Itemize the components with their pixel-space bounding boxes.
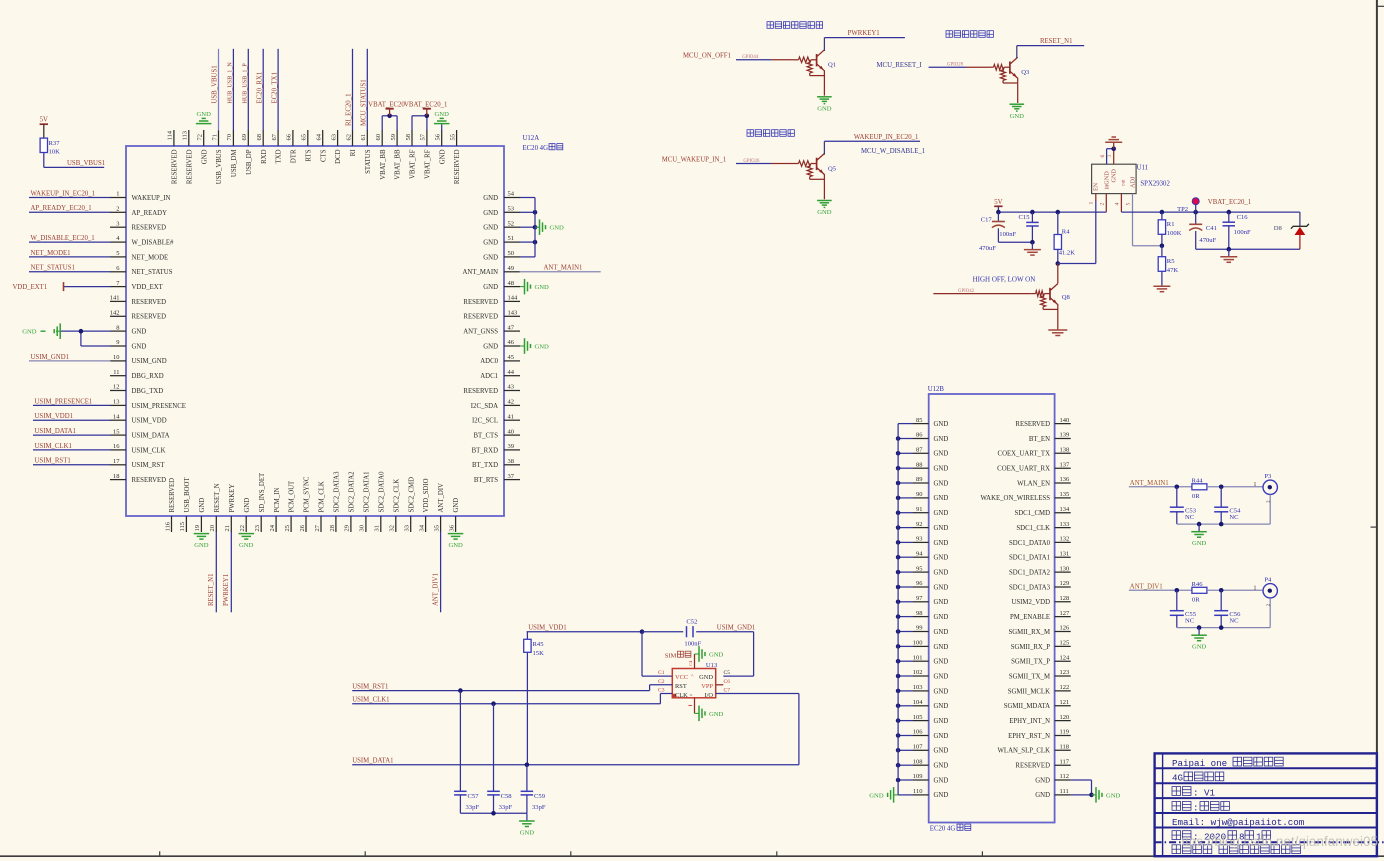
junction rail/C16 [1227,210,1232,215]
resistor R46 [1192,587,1207,593]
junction rail/R1 [1160,210,1165,215]
svg-text:88: 88 [916,461,923,468]
resistor R45 [524,632,531,765]
svg-text:SGMII_TX_M: SGMII_TX_M [1009,673,1050,680]
svg-text:U12B: U12B [928,386,945,393]
title block frame [1155,753,1384,856]
junction rail/C41 [1193,210,1198,215]
U13 pin C3 label [658,688,665,694]
svg-text:Q1: Q1 [828,62,836,69]
U12A top pin 56 GND [434,111,450,164]
svg-text:GND: GND [483,210,498,217]
svg-text:GND: GND [934,525,949,532]
svg-text:RESERVED: RESERVED [463,314,498,321]
svg-text:MCU_W_DISABLE_1: MCU_W_DISABLE_1 [861,148,925,155]
U12B left pin 108 GND [896,758,949,769]
U12A right pin 54 GND [483,191,535,202]
resistor R37 [40,138,47,152]
U12B right pin 117 RESERVED [1015,758,1070,769]
ground at ANT_MAIN1 network [1191,524,1207,547]
junction gnd rail tap [1197,625,1202,630]
U12A bottom pin 25 PCM_OUT [284,480,296,532]
svg-text:GND: GND [483,240,498,247]
svg-text:52: 52 [508,220,515,227]
U12B right pin 112 GND [1035,773,1091,784]
svg-text:GND: GND [439,149,446,164]
svg-text:23: 23 [254,525,261,532]
svg-text:RESERVED: RESERVED [169,478,176,513]
svg-text:WLAN_EN: WLAN_EN [1017,480,1050,487]
svg-text:111: 111 [1060,788,1069,795]
U12A bottom pin 32 SDC2_CLK [389,479,401,532]
C17 labels [979,217,1016,252]
svg-text:2: 2 [116,206,119,213]
svg-text:GND: GND [550,225,565,232]
svg-text:ANT_GNSS: ANT_GNSS [463,329,498,336]
title row 4 作者: 伍俊伟 [1172,802,1229,814]
svg-text:SIM: SIM [665,652,677,659]
ground at C16 [1220,249,1237,262]
svg-text:GND: GND [934,584,949,591]
svg-text:70: 70 [226,134,233,141]
svg-text:DBG_TXD: DBG_TXD [132,388,164,395]
U13 pin name GND [699,674,713,681]
svg-text:GND: GND [709,651,724,658]
svg-text:GND: GND [197,111,212,118]
svg-text:58: 58 [405,134,412,141]
U12B right pin 135 WAKE_ON_WIRELESS [981,491,1071,502]
svg-text:95: 95 [916,565,923,572]
svg-text:20: 20 [209,525,216,532]
svg-text:GND: GND [22,329,37,336]
svg-text:BT_CTS: BT_CTS [473,433,498,440]
svg-text:144: 144 [508,295,519,302]
wire USIM_VDD1 [527,631,642,633]
resistor R4 [1054,212,1061,263]
svg-text:C1: C1 [658,670,665,676]
U12B left pin 85 GND [898,417,948,428]
svg-text:124: 124 [1060,654,1071,661]
svg-text:134: 134 [1060,506,1071,513]
svg-text:GPIO44: GPIO44 [742,55,759,60]
regulator U11 SPX29302 body [1092,164,1137,193]
wire PWRKEY1 [824,37,905,39]
junction USIM_CLK1/C58 [491,701,496,706]
junction C15/C17 gnd [1030,240,1035,245]
U12A right pin 46 GND [483,338,549,354]
svg-text:RI_EC20_1: RI_EC20_1 [346,94,353,126]
svg-text:GND: GND [453,498,460,513]
U13 pin name CLK [675,692,688,699]
svg-text:USB_VBUS1: USB_VBUS1 [212,65,219,103]
svg-text:5V: 5V [40,117,48,124]
svg-text:ANT_MAIN1: ANT_MAIN1 [544,265,583,272]
svg-text:GND: GND [1111,169,1118,183]
U12A left pin 7 VDD_EXT [13,280,164,291]
U12A top pin 70 USB_DM [226,49,238,177]
svg-text:PCM_CLK: PCM_CLK [319,481,326,512]
U13 pin C6 label [724,679,731,685]
wire 5V rail [998,211,1106,213]
title row 6 日期: 2020年8月1日 [1172,831,1271,843]
junction USIM_VDD1/C1 [640,629,645,634]
C15 label [1019,214,1031,221]
svg-text:R4: R4 [1062,228,1070,235]
svg-text:SDC2_DATA1: SDC2_DATA1 [364,472,371,513]
wire GND bus right of U12A [534,198,536,257]
TP2 label [1177,206,1188,213]
C55 labels [1185,611,1197,625]
svg-text:TP2: TP2 [1177,206,1188,213]
svg-text:AP_READY_EC20_1: AP_READY_EC20_1 [31,205,92,212]
svg-text:NET_STATUS: NET_STATUS [132,269,173,276]
U12A left pin 142 RESERVED [110,310,166,321]
svg-text:USIM_RST1: USIM_RST1 [352,683,388,690]
svg-text:GND: GND [535,284,550,291]
capacitor C17 [992,212,1033,242]
ground at C59 [519,813,535,836]
net label MCU_RESET_I [877,62,923,69]
svg-text:BT_RXD: BT_RXD [472,447,499,454]
svg-text:PCM_SYNC: PCM_SYNC [304,476,311,512]
svg-text:NC: NC [1229,514,1239,521]
U12A bottom pin 20 RESET_N [208,483,221,612]
svg-text:105: 105 [913,714,923,721]
svg-text:39: 39 [508,443,515,450]
U12A top pin 63 DCD [330,130,342,164]
svg-text:137: 137 [1060,461,1071,468]
svg-text:USIM_GND1: USIM_GND1 [717,625,756,632]
svg-text:100nF: 100nF [1234,229,1251,236]
svg-text:35: 35 [433,525,440,532]
wire USIM_CLK1 [352,694,672,704]
svg-text:GND: GND [934,510,949,517]
junction 5V/C15 [1030,210,1035,215]
U12B right pin 125 SGMII_RX_P [1011,640,1071,651]
svg-text:RST: RST [675,683,687,690]
svg-text:89: 89 [916,476,923,483]
U11 pin name GND [1111,169,1118,183]
svg-text:24: 24 [269,524,276,531]
svg-text:10K: 10K [49,149,61,156]
svg-text:SDC2_DATA2: SDC2_DATA2 [349,471,356,513]
U12A bottom pin 115 USB_BOOT [179,477,191,532]
svg-text:DBG_RXD: DBG_RXD [132,373,164,380]
svg-text:RESERVED: RESERVED [132,299,167,306]
svg-text:GND: GND [483,225,498,232]
U12B left pin 102 GND [896,669,949,680]
U12A bottom pin 19 GND [194,498,210,549]
junction gnd rail/C56 [1219,625,1224,630]
svg-text:SGMII_MCLK: SGMII_MCLK [1008,688,1050,695]
title row 7 版本所有 禁止转载和上传网络 [1172,845,1300,854]
ground at U11 top [1105,137,1122,149]
svg-text:15: 15 [113,428,120,435]
svg-text:126: 126 [1060,625,1071,632]
svg-text:USB_BOOT: USB_BOOT [184,477,191,513]
U12B left pin 90 GND [896,491,949,502]
svg-text:RESERVED: RESERVED [132,314,167,321]
U12B right pin 139 BT_EN [1029,432,1071,443]
wire VBAT bottom rail [1196,248,1300,250]
svg-text:SDC2_CMD: SDC2_CMD [408,477,415,513]
svg-text:NET_MODE1: NET_MODE1 [31,250,71,257]
svg-text:VBAT_BB: VBAT_BB [395,149,402,180]
title 模块开关机控制 [767,22,823,29]
U12A left pin 3 RESERVED [110,220,166,231]
U12A right pin 40 BT_CTS [473,428,520,439]
U12A top pin 65 RTS [301,130,313,162]
svg-text:3: 3 [1107,155,1113,158]
watermark csdn url [1181,834,1378,849]
net label PWRKEY1 [848,30,880,37]
svg-text:97: 97 [916,595,923,602]
U12A right pin 49 ANT_MAIN [463,265,601,277]
ground at U13 top [695,646,724,662]
svg-text:NC: NC [1229,617,1239,624]
U13 pin C5 label [724,670,731,676]
net label USIM_VDD1 [528,625,567,632]
svg-text:WAKEUP_IN: WAKEUP_IN [132,195,171,202]
R1 labels [1167,221,1182,237]
svg-text:93: 93 [916,536,923,543]
svg-text:GND: GND [1192,540,1207,547]
U12A left pin 14 USIM_VDD [33,413,167,425]
ground at ANT_DIV1 network [1191,628,1207,651]
capacitor C57 [454,691,467,814]
ground GND at Q5 [817,201,832,217]
svg-text:102: 102 [913,669,923,676]
svg-text:SGMII_MDATA: SGMII_MDATA [1004,703,1050,710]
svg-text:14: 14 [113,413,120,420]
svg-text:U13: U13 [706,662,718,669]
svg-text:GND: GND [709,711,724,718]
svg-text:USIM_RST: USIM_RST [132,462,166,469]
svg-text:MCU_WAKEUP_IN_1: MCU_WAKEUP_IN_1 [662,156,727,163]
U13 bottom pin [688,698,694,714]
U12A right pin 50 GND [483,250,535,261]
svg-text:4: 4 [1115,203,1121,206]
title row 1 Paipai one 设备原理图 [1172,757,1283,769]
svg-text:GND: GND [520,829,535,836]
U12B designator [928,386,945,393]
U12A bottom pin 22 GND [239,498,255,549]
svg-text:ANT_MAIN1: ANT_MAIN1 [1130,480,1169,487]
svg-text:USIM_VDD: USIM_VDD [132,418,167,425]
U12A top pin 55 RESERVED [449,130,461,184]
label SIM 卡座 [665,651,691,659]
net label USIM_DATA1 [352,758,393,765]
svg-text:GND: GND [239,542,254,549]
U13 pin name RST [675,683,687,690]
svg-text:PM_ENABLE: PM_ENABLE [1010,614,1050,621]
title 模块复位控制 [946,31,993,38]
capacitor C56 [1214,590,1228,627]
U12A bottom pin 28 SDC2_DATA3 [329,471,341,532]
svg-text:13: 13 [113,399,120,406]
wire U12B left GND bus [897,424,899,795]
svg-text:16: 16 [113,443,120,450]
svg-text:COEX_UART_RX: COEX_UART_RX [997,466,1050,473]
svg-text:GND: GND [869,792,884,799]
svg-text:USIM_CLK1: USIM_CLK1 [35,443,72,450]
U13 designator [706,662,718,669]
svg-text:121: 121 [1060,699,1070,706]
svg-text:GND: GND [699,674,713,681]
svg-text:R1: R1 [1167,221,1175,228]
svg-text:WLAN_SLP_CLK: WLAN_SLP_CLK [998,748,1051,755]
transistor Q3 [989,57,1018,103]
D8 label [1274,225,1283,232]
label GPIO44 [742,55,759,60]
svg-text:VBAT_EC20_1: VBAT_EC20_1 [1208,199,1251,206]
svg-text:STATUS: STATUS [365,149,372,174]
wire WAKEUP_IN_EC20_1 [824,140,920,142]
label HIGH OFF, LOW ON [973,275,1036,283]
U12A left pin 1 WAKEUP_IN [29,190,170,202]
net label MCU_WAKEUP_IN_1 [662,156,727,163]
svg-text:SD_INS_DET: SD_INS_DET [259,472,266,512]
svg-text:: V1: : V1 [1193,787,1216,798]
svg-text:RESERVED: RESERVED [132,477,167,484]
svg-text:10: 10 [113,354,120,361]
P4 designator [1264,577,1272,584]
svg-text:CTS: CTS [320,149,327,162]
svg-text:ADJ: ADJ [1129,176,1136,188]
svg-text:8: 8 [116,324,119,331]
U12B right pin 118 WLAN_SLP_CLK [998,744,1071,755]
Q8 designator [1062,294,1071,301]
ground at U12B pins 111/112 [1092,787,1121,803]
svg-text:ADC0: ADC0 [480,358,498,365]
svg-text:GND: GND [934,777,949,784]
svg-text:34: 34 [418,524,425,531]
svg-text:2: 2 [1099,203,1105,206]
C58 labels [499,793,513,811]
svg-text:USIM_VDD1: USIM_VDD1 [528,625,567,632]
junction VBAT_BB [387,114,392,119]
net label VBAT_EC20_1 (rail) [1208,199,1251,206]
svg-text:GND: GND [934,688,949,695]
svg-text:106: 106 [913,729,924,736]
U12A bottom pin 29 SDC2_DATA2 [344,471,356,532]
U12B left pin 94 GND [896,551,949,562]
U13 pin C6 stub [716,684,724,686]
svg-text:P3: P3 [1264,473,1272,480]
svg-text:I/O: I/O [704,692,713,699]
U12B left pin 105 GND [896,714,949,725]
svg-text:55: 55 [449,134,456,141]
svg-text:AP_READY: AP_READY [132,210,168,217]
wire U12B pin112 to pin111 [1091,780,1093,795]
svg-text:42: 42 [508,399,515,406]
svg-text:GND: GND [199,498,206,513]
svg-text:32: 32 [389,525,396,532]
U12A right pin 41 I2C_SCL [472,413,520,424]
svg-text:118: 118 [1060,744,1070,751]
title 模块唤醒控制 [747,130,794,137]
svg-text:GND: GND [934,540,949,547]
connector P4 pin1 label [1253,585,1256,591]
resistor R5 [1158,246,1165,286]
wire C7 I/O loop [716,694,799,765]
svg-text:C5: C5 [724,670,731,676]
junction USIM_DATA1/R45 [525,763,530,768]
power port VBAT_EC20_1 [404,102,447,116]
svg-text:RESET_N1: RESET_N1 [1040,38,1072,45]
C53 labels [1185,507,1197,521]
net label ANT_MAIN1 [1130,480,1169,487]
svg-text:SDC2_DATA0: SDC2_DATA0 [378,471,385,513]
transistor Q5 [794,154,824,200]
U12A right pin 48 GND [483,279,549,295]
svg-text:GND: GND [934,451,949,458]
capacitor C53 [1170,487,1184,524]
svg-text:59: 59 [390,134,397,141]
svg-text:115: 115 [179,522,186,532]
U12A top pin 114 RESERVED [167,130,179,184]
svg-text:107: 107 [913,744,924,751]
svg-text:GND: GND [934,466,949,473]
svg-text:GND: GND [934,614,949,621]
svg-text:27: 27 [314,524,321,531]
junction ANT_DIV1/C55 [1175,588,1180,593]
wire MCU_ON_OFF1 [736,59,794,61]
ground at C15 [1024,242,1041,255]
U12A right pin 47 ANT_GNSS [463,324,520,335]
U12A left pin 17 USIM_RST [33,458,165,470]
svg-text:EC20_TX1: EC20_TX1 [271,72,278,103]
svg-text:131: 131 [1060,551,1070,558]
svg-text:40: 40 [508,428,515,435]
svg-text:USIM_GND1: USIM_GND1 [31,354,70,361]
connector P3 [1263,480,1277,494]
sheet border tick x=365 [364,851,366,856]
svg-text:46: 46 [508,339,515,346]
svg-text:64: 64 [316,133,323,140]
svg-text:RESERVED: RESERVED [463,299,498,306]
svg-text:GND: GND [934,480,949,487]
svg-text:GND: GND [934,570,949,577]
wire VBAT_BB bracket [382,115,397,117]
svg-text:122: 122 [1060,684,1070,691]
IC U12A EC20 4G module body [126,146,504,516]
svg-text:60: 60 [375,134,382,141]
svg-text:SGMII_TX_P: SGMII_TX_P [1011,659,1050,666]
svg-text:26: 26 [299,524,306,531]
svg-text:96: 96 [916,580,923,587]
svg-text:GND: GND [535,343,550,350]
U12B left pin 86 GND [896,432,949,443]
U12B left pin 93 GND [896,536,949,547]
svg-text:48: 48 [508,280,515,287]
wire C57-C59 gnd rail [460,812,527,814]
junction ANT_MAIN1/C53 [1175,485,1180,490]
svg-text:GND: GND [934,733,949,740]
svg-text:GND: GND [1106,792,1121,799]
svg-text:U12A: U12A [523,135,540,142]
svg-text:37: 37 [508,473,515,480]
svg-text:31: 31 [374,525,381,532]
svg-text:TXD: TXD [276,149,283,163]
svg-text:EC20 4G: EC20 4G [523,145,549,152]
U12A bottom pin 34 VDD_SDIO [418,478,430,532]
svg-text:RESERVED: RESERVED [132,225,167,232]
svg-text:SDC1_CLK: SDC1_CLK [1016,525,1050,532]
svg-text:RESERVED: RESERVED [1015,763,1050,770]
net label USIM_GND1 (C52) [717,625,756,632]
svg-text:25: 25 [284,525,291,532]
